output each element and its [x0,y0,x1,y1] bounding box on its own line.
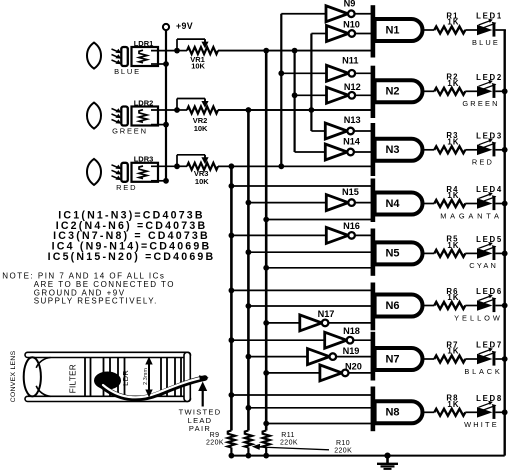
svg-text:1K: 1K [447,138,459,147]
svg-text:1K: 1K [447,400,459,409]
svg-text:N13: N13 [344,115,361,125]
svg-text:10K: 10K [194,124,208,133]
svg-text:2.3mm: 2.3mm [143,368,149,385]
svg-text:LED6: LED6 [476,287,503,296]
svg-text:N11: N11 [342,56,358,66]
svg-text:N15: N15 [342,187,359,197]
svg-text:LED8: LED8 [476,394,503,403]
svg-text:LED1: LED1 [476,12,503,21]
svg-text:N8: N8 [385,407,399,419]
svg-text:RED: RED [116,183,137,192]
svg-text:N19: N19 [343,346,360,356]
svg-text:10K: 10K [191,62,205,71]
svg-text:N14: N14 [343,137,361,147]
svg-text:FILTER: FILTER [68,364,77,393]
svg-text:BLACK: BLACK [464,367,502,376]
svg-text:N10: N10 [343,20,360,30]
svg-text:YELLOW: YELLOW [454,313,503,322]
svg-text:1K: 1K [447,241,459,250]
svg-text:LDR: LDR [121,370,130,386]
svg-text:LED3: LED3 [476,131,503,140]
svg-text:220K: 220K [206,440,224,447]
svg-text:GREEN: GREEN [462,99,499,108]
svg-text:LED7: LED7 [476,341,503,350]
svg-text:1K: 1K [447,191,459,200]
svg-text:1K: 1K [447,347,459,356]
svg-text:RED: RED [472,158,494,167]
svg-text:BLUE: BLUE [114,67,141,76]
svg-text:N18: N18 [343,326,360,336]
svg-text:R11: R11 [281,432,295,439]
svg-text:1K: 1K [447,79,459,88]
svg-text:N1: N1 [385,24,399,36]
svg-text:LED2: LED2 [476,73,503,82]
svg-text:LED5: LED5 [476,235,503,244]
svg-text:WHITE: WHITE [464,420,499,429]
svg-text:LDR2: LDR2 [134,98,154,107]
svg-text:N16: N16 [343,221,360,231]
svg-text:1K: 1K [447,18,459,27]
svg-text:10K: 10K [195,177,209,186]
svg-text:BLUE: BLUE [472,38,500,47]
svg-text:N5: N5 [385,248,399,260]
svg-text:220K: 220K [280,440,298,447]
svg-text:IC5(N15-N20) =CD4069B: IC5(N15-N20) =CD4069B [48,251,216,263]
svg-text:N12: N12 [344,82,361,92]
svg-text:+9V: +9V [176,21,193,31]
svg-text:PAIR: PAIR [189,424,211,433]
svg-text:LED4: LED4 [476,185,503,194]
svg-text:R10: R10 [336,440,350,447]
svg-text:N7: N7 [385,353,399,365]
svg-text:N17: N17 [318,309,335,319]
svg-text:220K: 220K [334,448,352,455]
svg-text:CYAN: CYAN [469,261,498,270]
svg-text:N3: N3 [385,144,399,156]
svg-text:CONVEX LENS: CONVEX LENS [10,350,17,402]
svg-text:GREEN: GREEN [112,127,148,136]
svg-text:N20: N20 [345,361,362,371]
svg-text:MAGANTA: MAGANTA [440,211,503,220]
svg-text:LDR3: LDR3 [134,155,154,164]
svg-text:N4: N4 [385,198,400,210]
svg-text:N9: N9 [344,0,356,8]
svg-text:1K: 1K [447,293,459,302]
svg-text:LDR1: LDR1 [134,39,154,48]
svg-text:N2: N2 [385,86,399,98]
svg-text:R9: R9 [210,432,220,439]
svg-text:N6: N6 [385,300,399,312]
svg-text:SUPPLY RESPECTIVELY.: SUPPLY RESPECTIVELY. [34,297,158,306]
